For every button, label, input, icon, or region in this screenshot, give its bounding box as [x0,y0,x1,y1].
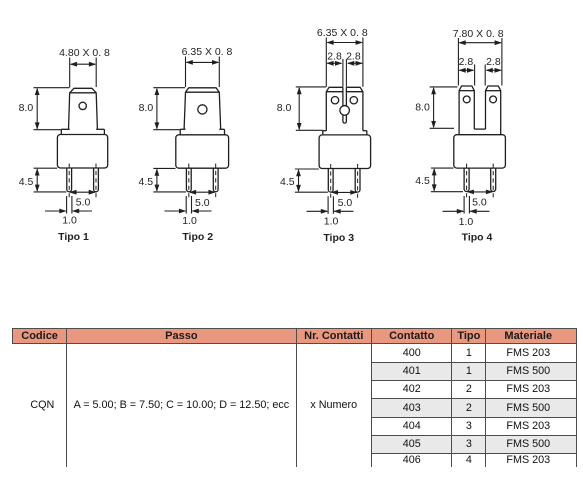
Tipo 4 dimension 8.0 [415,87,457,128]
svg-text:2.8: 2.8 [486,56,501,68]
Tipo 4 dimension 4.5 [415,168,463,192]
Tipo 4 dimension label 7.80 X 0.8 [453,28,504,40]
svg-text:4.80 X 0. 8: 4.80 X 0. 8 [59,47,110,59]
Tipo 4 pin right [491,168,496,191]
svg-text:Tipo 2: Tipo 2 [182,231,213,243]
Tipo 1 label [58,231,89,243]
Tipo 1 collar [61,129,104,134]
Tipo 4 pin centerlines [467,164,494,199]
Tipo 2 pin right [213,168,218,192]
Tipo 4 pin left [464,168,469,191]
Tipo 2 dimension 8.0 [139,88,186,130]
Tipo 1 dimension 5.0 [69,190,96,209]
svg-text:5.0: 5.0 [472,197,487,209]
Tipo 2 dimension label 6.35 X 0.8 [182,46,233,58]
svg-text:4.5: 4.5 [138,176,153,188]
Tipo 4 prong left [459,86,474,135]
Tipo 3 dimension label 6.35 X 0.8 [317,27,368,39]
Tipo 2 collar [180,129,224,135]
Tipo 3 body [319,135,371,169]
Tipo 2 blade hole [198,105,207,114]
Tipo 2 dimension 5.0 [189,190,216,209]
svg-text:2.8: 2.8 [327,50,342,62]
table data rows [13,344,577,362]
Tipo 1 dimension 1.0 [45,196,92,227]
svg-text:Tipo 3: Tipo 3 [323,232,354,244]
svg-text:8.0: 8.0 [139,102,154,114]
Tipo 2 blade tab [184,88,221,130]
Tipo 2 pin left [186,168,191,192]
Tipo 2 pin centerlines [189,164,216,200]
Tipo 3 pin centerlines [331,164,358,199]
Tipo 4 width dimension arrow [458,38,502,86]
Tipo 1 pin left [67,168,72,192]
svg-text:1.0: 1.0 [62,215,77,227]
svg-text:8.0: 8.0 [415,102,430,114]
Tipo 1 body [57,135,107,169]
Tipo 3 dimension labels 2.8 2.8 [327,50,361,62]
Tipo 4 prong right [486,86,501,135]
svg-text:1.0: 1.0 [459,216,474,228]
Tipo 1 dimension 8.0 [19,88,70,130]
Tipo 3 width dimension arrow [326,38,363,87]
Tipo 4 half-width dimension arrows [458,65,502,86]
svg-text:Tipo 4: Tipo 4 [462,231,493,243]
data table [12,328,577,467]
Tipo 3 dimension 1.0 [307,196,354,227]
Tipo 4 label [462,231,493,243]
Tipo 3 collar [323,131,367,135]
Tipo 3 label [323,232,354,244]
Tipo 3 blade tab [326,87,363,130]
Tipo 3 blade hole left [331,97,338,104]
Tipo 3 blade hole right [350,97,357,104]
Tipo 4 slot bottom [474,128,485,130]
svg-text:4.5: 4.5 [19,176,34,188]
svg-text:6.35 X 0. 8: 6.35 X 0. 8 [317,27,368,39]
connector technical drawing [0,0,583,300]
Tipo 3 half-width dimension arrows [326,59,363,87]
Tipo 4 dimension labels 2.8 2.8 [459,56,501,68]
Tipo 3 pin left [328,169,333,193]
Tipo 1 width dimension arrow [70,58,97,88]
svg-text:5.0: 5.0 [338,197,353,209]
svg-text:2.8: 2.8 [459,56,474,68]
Tipo 2 body [176,135,229,168]
Tipo 2 label [182,231,213,243]
Tipo 4 body [454,135,506,168]
svg-text:1.0: 1.0 [182,215,197,227]
Tipo 3 dimension 8.0 [277,87,326,130]
Tipo 1 blade hole [79,102,86,109]
Tipo 1 pin right [94,168,99,192]
Tipo 4 dimension 1.0 [443,196,490,228]
Tipo 2 dimension 4.5 [138,168,186,192]
svg-text:2.8: 2.8 [346,50,361,62]
table header row [13,329,577,468]
Tipo 1 pin centerlines [69,164,96,200]
svg-text:5.0: 5.0 [195,197,210,209]
svg-text:8.0: 8.0 [277,102,292,114]
svg-text:4.5: 4.5 [415,175,430,187]
Tipo 4 prong hole right [490,96,497,103]
Tipo 2 width dimension arrow [186,57,220,88]
svg-text:Tipo 1: Tipo 1 [58,231,89,243]
svg-text:4.5: 4.5 [280,176,295,188]
svg-text:1.0: 1.0 [324,215,339,227]
Tipo 4 prong hole left [463,96,470,103]
svg-text:8.0: 8.0 [19,102,34,114]
svg-text:7.80 X 0. 8: 7.80 X 0. 8 [453,28,504,40]
Tipo 1 blade tab [69,88,98,129]
Tipo 4 dimension 5.0 [467,190,494,209]
Tipo 3 dimension 5.0 [331,190,358,209]
Tipo 3 dimension 4.5 [280,169,328,192]
Tipo 3 pin right [355,169,360,193]
Tipo 1 dimension 4.5 [19,168,67,192]
svg-text:6.35 X 0. 8: 6.35 X 0. 8 [182,46,233,58]
Tipo 1 dimension label 4.80 X 0.8 [59,47,110,59]
Tipo 2 dimension 1.0 [165,196,212,227]
Tipo 3 keyhole slot [340,87,349,123]
svg-text:5.0: 5.0 [76,197,91,209]
